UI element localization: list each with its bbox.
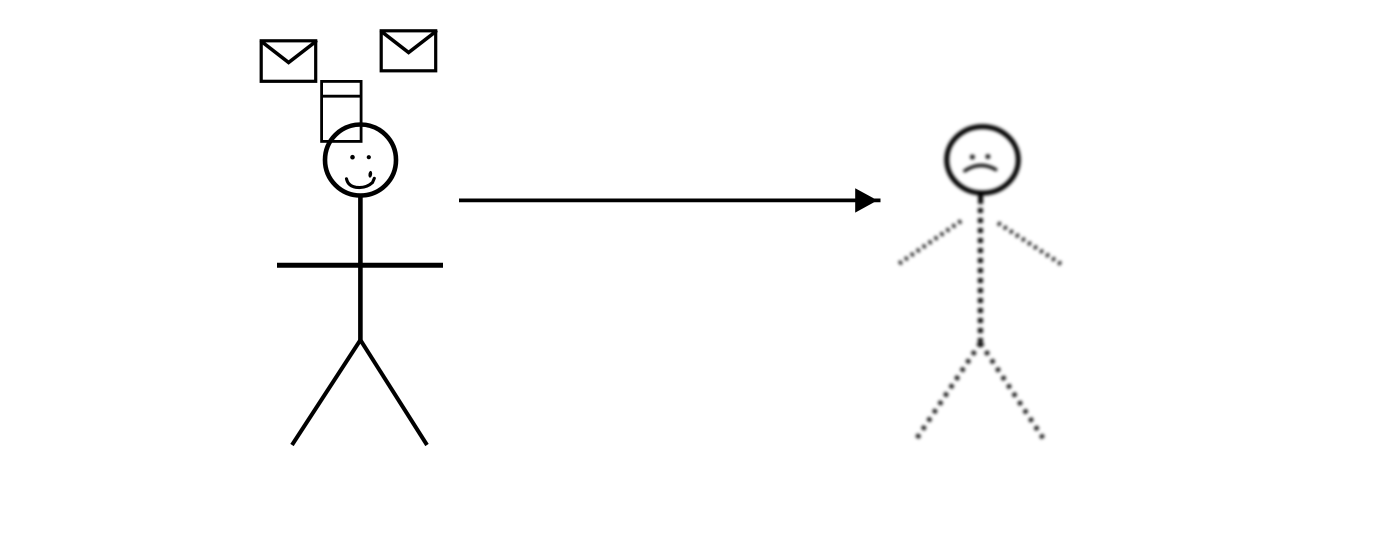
happy figure left eye (350, 155, 355, 160)
envelope 1 (left, above head) (261, 41, 316, 82)
sad figure left leg (dotted) (917, 343, 980, 438)
sad figure body (dotted) (978, 208, 983, 342)
arrow shaft (459, 199, 881, 203)
happy figure head (325, 125, 396, 196)
happy figure body (358, 196, 363, 342)
envelope 2 (right, above head) (381, 31, 436, 71)
sad figure left eye (970, 155, 975, 160)
sad figure frown (965, 165, 996, 170)
sad figure (dotted, slightly blurred) (897, 127, 1061, 438)
sad figure right arm (dotted) (998, 223, 1061, 264)
sad figure right leg (dotted) (980, 343, 1043, 438)
happy figure right eye (367, 155, 371, 159)
happy figure right leg (360, 340, 427, 445)
sad figure right eye (986, 154, 991, 159)
sad figure left arm (dotted) (897, 221, 961, 265)
happy figure left leg (292, 340, 360, 445)
happy figure cheek drop (368, 171, 373, 178)
arrow head (855, 188, 877, 212)
happy figure arms (277, 263, 443, 268)
sad figure neck stub (978, 191, 983, 204)
paper stack box overlapping head (322, 81, 362, 141)
sad figure head (947, 127, 1019, 193)
happy figure smile (347, 178, 375, 187)
